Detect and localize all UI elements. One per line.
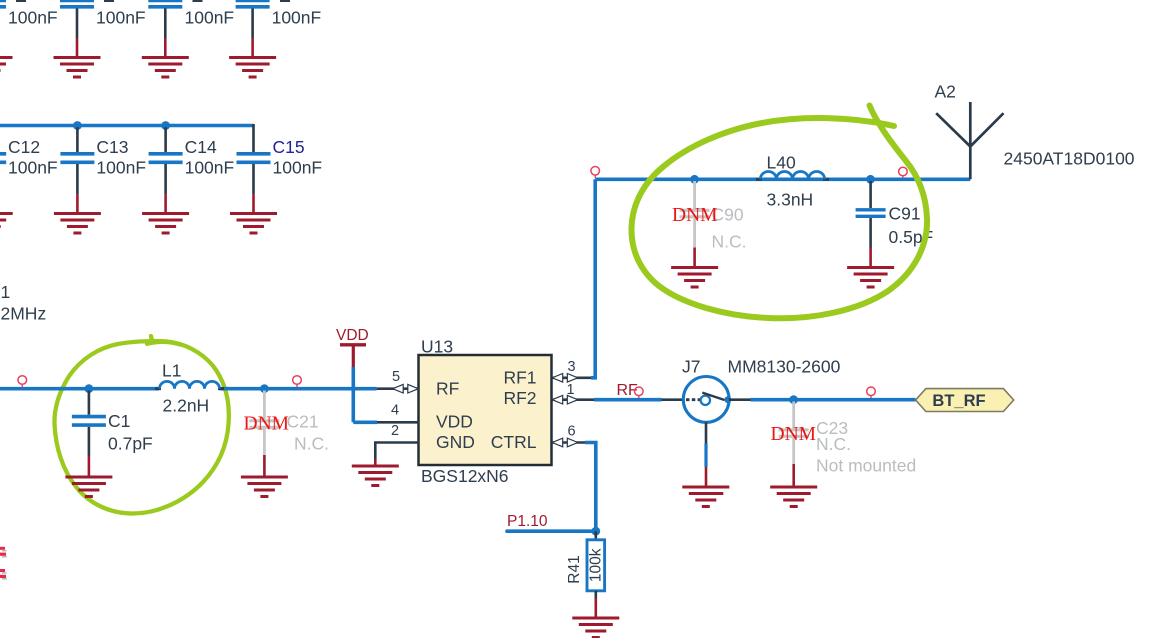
wire VDD vertical — [351, 367, 355, 422]
capacitor C15 — [237, 124, 323, 213]
svg-text:BT_RF: BT_RF — [932, 392, 985, 410]
svg-text:DNM: DNM — [672, 205, 718, 226]
svg-text:C12: C12 — [8, 137, 40, 157]
capacitor C13 — [60, 127, 146, 213]
ground (row1 col3) — [142, 58, 189, 78]
ground (C15) — [230, 214, 277, 234]
inductor L40 — [756, 153, 829, 210]
power symbol VDD — [336, 327, 369, 367]
svg-text:Not mounted: Not mounted — [816, 456, 916, 476]
node junction row2 a — [73, 121, 82, 130]
svg-text:R41: R41 — [566, 555, 583, 583]
svg-text:BGS12xN6: BGS12xN6 — [421, 466, 509, 486]
ground (row1 col4) — [229, 58, 276, 78]
capacitor C23 (not mounted, gray) — [779, 402, 917, 487]
port ring near C21 — [293, 376, 302, 388]
svg-text:100nF: 100nF — [185, 8, 235, 28]
wire VDD to pin4 — [353, 420, 377, 424]
ground (C90) — [671, 268, 718, 288]
svg-text:C15: C15 — [273, 137, 305, 157]
svg-text:5: 5 — [392, 369, 400, 385]
text fragment C9 — [16, 0, 26, 2]
wire J7 to BT_RF — [751, 398, 916, 402]
svg-text:DNM: DNM — [244, 414, 290, 435]
wire P1.10 — [507, 529, 596, 533]
ground (C23) — [770, 487, 817, 507]
pin 6 (CTRL) — [552, 424, 588, 447]
svg-text:N.C.: N.C. — [816, 434, 851, 454]
svg-text:N.C.: N.C. — [294, 433, 329, 453]
wire pin2 to ground — [374, 459, 377, 465]
svg-text:2: 2 — [391, 423, 399, 439]
svg-text:C13: C13 — [96, 137, 128, 157]
pin 3 (RF1) — [552, 359, 594, 382]
op-amp U13 body — [419, 337, 552, 487]
wire pin3 up to antenna net — [591, 179, 595, 377]
ground (row1 col2) — [54, 58, 101, 78]
svg-text:1: 1 — [1, 282, 11, 302]
svg-text:GND: GND — [436, 432, 475, 452]
pin 4 (VDD) — [377, 403, 419, 423]
capacitor C21 (not mounted, gray) — [249, 391, 329, 477]
svg-text:1: 1 — [566, 382, 574, 398]
wire main left — [0, 387, 159, 391]
svg-text:RF2: RF2 — [503, 388, 536, 408]
text fragment C11 — [193, 0, 203, 2]
resistor R41 — [566, 531, 605, 617]
svg-text:100k: 100k — [588, 548, 605, 582]
capacitor C14 — [149, 127, 235, 213]
ground (partial, left edge, row1) — [0, 58, 13, 71]
capacitor 100nF (row1 col3) — [148, 1, 234, 58]
svg-text:2.2nH: 2.2nH — [163, 396, 210, 416]
crystal label fragment Y1/32MHz — [1, 282, 47, 324]
ground (pin2) — [352, 466, 399, 486]
capacitor C91 — [856, 181, 934, 267]
svg-text:C14: C14 — [185, 137, 217, 157]
wire pin1 to J7 — [594, 398, 662, 402]
svg-text:100nF: 100nF — [96, 8, 146, 28]
svg-text:C1: C1 — [108, 411, 130, 431]
capacitor C12 (partial at left edge) — [0, 137, 58, 178]
svg-text:100nF: 100nF — [272, 8, 322, 28]
svg-text:VDD: VDD — [436, 411, 473, 431]
port ring near C91 — [899, 167, 908, 178]
wire antenna net horizontal — [595, 178, 970, 182]
svg-text:VDD: VDD — [336, 327, 369, 344]
DNM text fragment b (left edge) — [0, 569, 7, 580]
node junction R41 — [591, 527, 600, 536]
svg-text:4: 4 — [391, 403, 399, 419]
svg-text:J7: J7 — [682, 357, 700, 377]
inductor L1 — [155, 361, 224, 416]
svg-text:3.3nH: 3.3nH — [767, 190, 814, 210]
ground (J7) — [682, 487, 729, 507]
svg-text:100nF: 100nF — [8, 158, 58, 178]
svg-text:100nF: 100nF — [185, 158, 235, 178]
ground (C12 partial) — [0, 214, 13, 227]
ground (C14) — [142, 214, 189, 234]
wire (row2 bus) — [0, 124, 254, 128]
text fragment C12b — [280, 0, 290, 2]
ground (C21) — [241, 477, 288, 497]
pin 5 (RF) — [377, 369, 419, 393]
node junction row2 b — [161, 121, 170, 130]
svg-text:A2: A2 — [935, 82, 956, 102]
DNM text fragment a (left edge) — [0, 547, 7, 558]
wire L1 to pin5 — [220, 387, 377, 391]
highlighter loop around L40/C90/C91 — [631, 106, 927, 319]
svg-text:2450AT18D0100: 2450AT18D0100 — [1004, 149, 1135, 169]
svg-text:C21: C21 — [287, 411, 319, 431]
antenna A2 — [935, 82, 1135, 180]
text fragment C10 — [104, 0, 114, 2]
capacitor 100nF (row1 col4) — [236, 1, 322, 58]
node junction C1 — [85, 384, 94, 393]
svg-text:100nF: 100nF — [96, 158, 146, 178]
ground (C1) — [65, 477, 112, 497]
svg-text:N.C.: N.C. — [712, 232, 747, 252]
highlighter loop around L1/C1 — [54, 336, 228, 514]
svg-text:DNM: DNM — [771, 424, 817, 445]
svg-text:L40: L40 — [767, 153, 796, 173]
svg-text:6: 6 — [567, 424, 575, 440]
svg-text:100nF: 100nF — [8, 8, 58, 28]
svg-text:CTRL: CTRL — [491, 432, 537, 452]
capacitor (partial, left edge, row1) — [0, 1, 58, 28]
ground (C91) — [847, 268, 894, 288]
port ring left end — [18, 376, 27, 388]
connector J7 — [662, 357, 841, 444]
svg-text:RF: RF — [436, 378, 459, 398]
svg-text:100nF: 100nF — [273, 158, 323, 178]
pin 2 (GND) — [375, 423, 419, 459]
wire pin6 down to R41 — [585, 443, 596, 532]
ground (C13) — [54, 214, 101, 234]
ground (R41) — [572, 618, 619, 638]
svg-text:L1: L1 — [162, 361, 181, 381]
capacitor C1 — [72, 391, 153, 477]
capacitor C90 (not mounted, gray) — [680, 181, 747, 267]
pin 1 (RF2) — [552, 382, 596, 404]
port ring RF — [635, 387, 644, 398]
svg-text:2MHz: 2MHz — [1, 304, 47, 324]
node junction C91 — [866, 175, 875, 184]
svg-text:U13: U13 — [421, 337, 453, 357]
svg-text:C91: C91 — [889, 204, 921, 224]
node junction C21 — [260, 384, 269, 393]
port ring near BT_RF — [867, 387, 876, 398]
svg-text:0.7pF: 0.7pF — [108, 433, 153, 453]
svg-text:P1.10: P1.10 — [507, 513, 548, 530]
net flag BT_RF — [916, 389, 1014, 412]
node junction C90 — [690, 175, 699, 184]
svg-text:MM8130-2600: MM8130-2600 — [728, 357, 841, 377]
port ring at corner — [591, 167, 600, 179]
svg-text:RF1: RF1 — [503, 368, 536, 388]
svg-text:3: 3 — [567, 359, 575, 375]
wire J7 stub to ground — [704, 444, 707, 487]
node junction C23 — [789, 395, 798, 404]
capacitor 100nF (row1 col2) — [60, 1, 146, 58]
